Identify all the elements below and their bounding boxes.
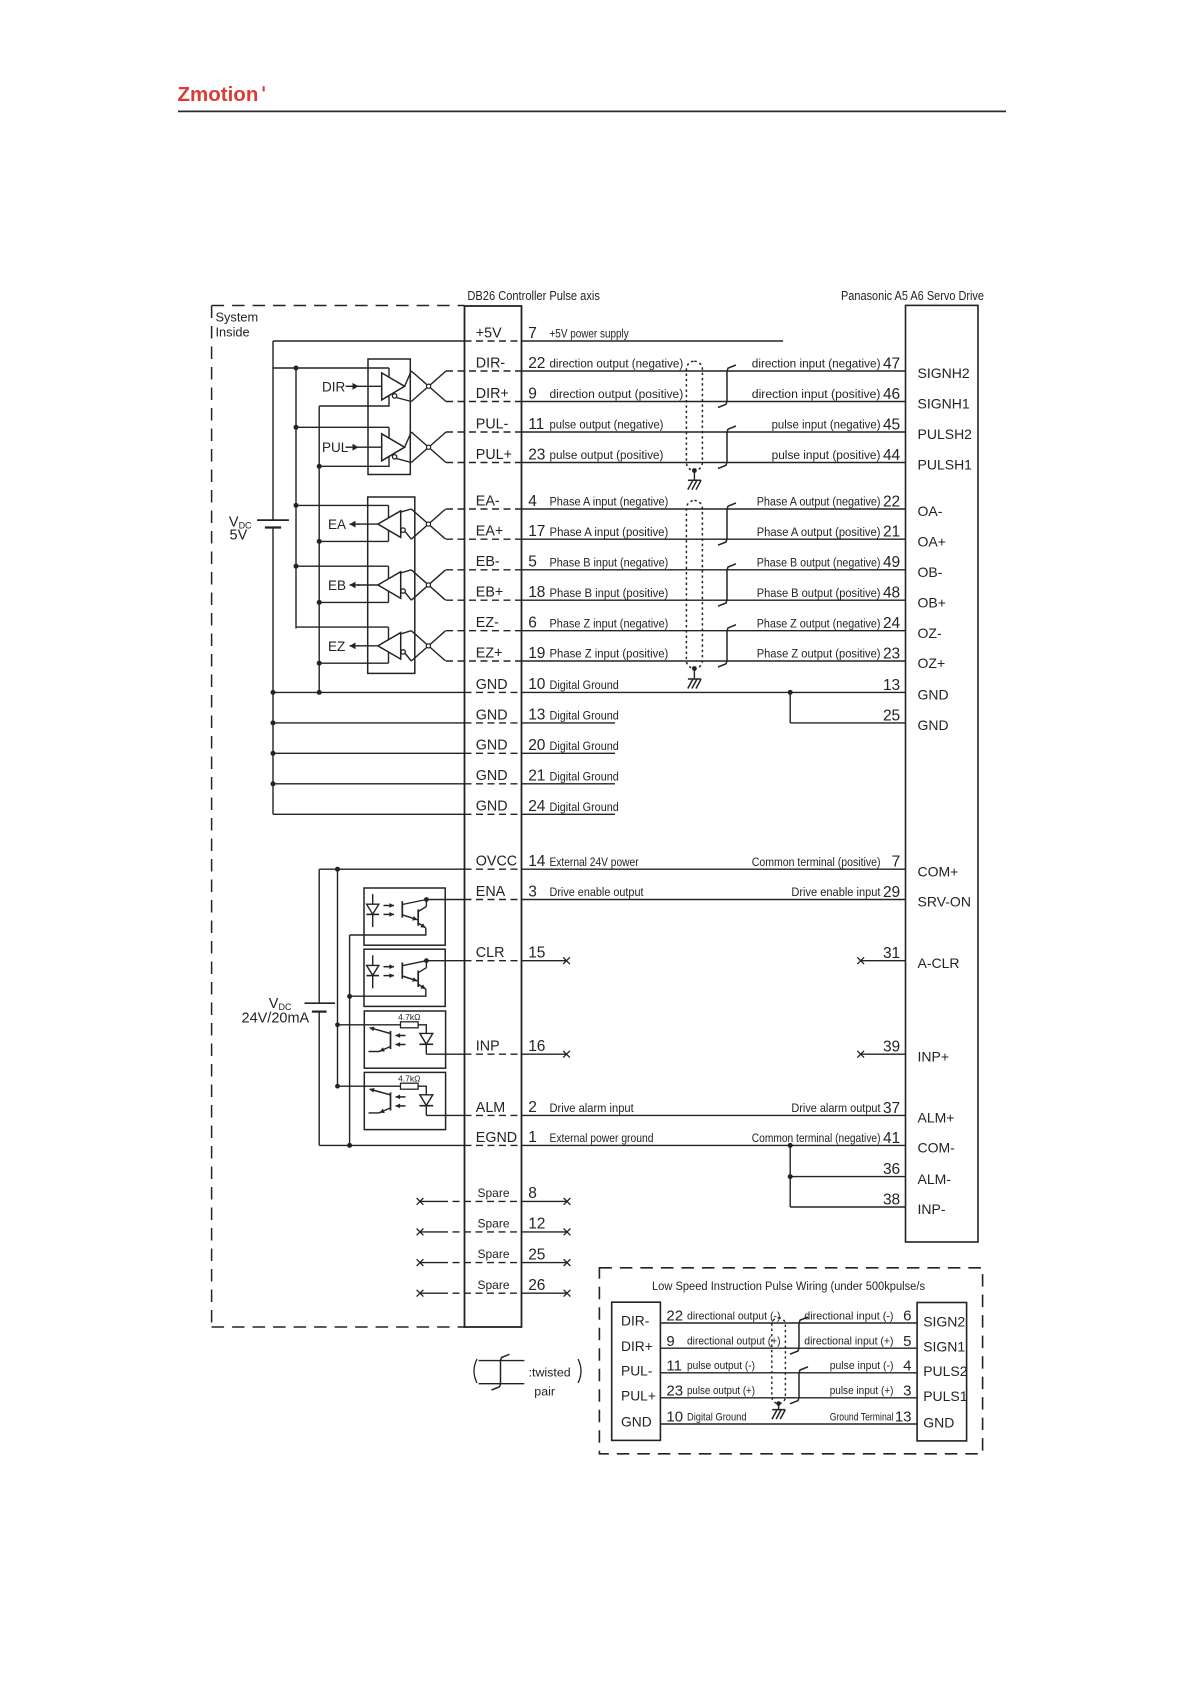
svg-text:5: 5	[903, 1333, 911, 1350]
svg-text:EB+: EB+	[476, 585, 503, 601]
svg-text:directional output (-): directional output (-)	[687, 1310, 781, 1322]
junction	[271, 781, 276, 786]
pin label GND / 10	[476, 676, 619, 693]
svg-text:4: 4	[903, 1357, 911, 1374]
svg-text:44: 44	[883, 447, 901, 464]
pin label CLR / 15	[476, 945, 546, 962]
svg-text:19: 19	[528, 645, 545, 662]
svg-text:Phase B output (negative): Phase B output (negative)	[757, 555, 881, 569]
svg-text:11: 11	[528, 416, 544, 433]
svg-text:18: 18	[528, 584, 545, 601]
svg-text:Drive alarm output: Drive alarm output	[791, 1101, 881, 1115]
svg-text:Phase A input (negative): Phase A input (negative)	[550, 495, 669, 509]
crossover X (DIR pair)	[396, 371, 446, 402]
svg-text:GND: GND	[621, 1415, 652, 1430]
light arrows	[384, 966, 395, 968]
servo pin 47 SIGNH2	[752, 355, 970, 381]
LS shield mark (PUL pair)	[790, 1367, 808, 1404]
servo pin 36 ALM-	[883, 1161, 951, 1187]
svg-text:Panasonic A5 A6 Servo Drive: Panasonic A5 A6 Servo Drive	[841, 288, 984, 303]
junction	[294, 366, 299, 371]
svg-text:PUL-: PUL-	[621, 1363, 652, 1378]
pin label EZ+ / 19	[476, 645, 669, 662]
wire COM- branch rail	[789, 1145, 791, 1207]
svg-text:9: 9	[528, 385, 537, 402]
phototransistor INP	[390, 1031, 392, 1049]
pin label DIR+ / 9	[476, 385, 683, 402]
svg-text::twisted: :twisted	[529, 1366, 571, 1380]
svg-text:4.7kΩ: 4.7kΩ	[398, 1012, 420, 1022]
junction	[317, 464, 322, 469]
pin label GND / 24	[476, 798, 619, 815]
wire GND pin21	[273, 783, 465, 785]
junction	[335, 1084, 340, 1089]
optocoupler INP	[364, 1011, 445, 1068]
pin label DIR- / 22	[476, 355, 683, 372]
svg-text:EA: EA	[328, 517, 346, 532]
svg-text:EZ: EZ	[328, 639, 345, 654]
svg-text:22: 22	[528, 355, 545, 372]
svg-text:Ground Terminal: Ground Terminal	[830, 1411, 894, 1423]
servo pin 45 PULSH2	[772, 416, 973, 442]
servo pin 24 OZ-	[757, 615, 942, 641]
LS wire PUL- to PULS2	[660, 1372, 917, 1374]
svg-text:Spare: Spare	[478, 1247, 510, 1261]
svg-text:24: 24	[528, 798, 546, 815]
servo pin 44 PULSH1	[772, 447, 973, 473]
svg-text:Digital Ground: Digital Ground	[550, 800, 619, 814]
shield mark (DIR pair)	[718, 365, 736, 408]
svg-text:39: 39	[883, 1039, 900, 1056]
svg-text:COM+: COM+	[918, 863, 959, 879]
svg-text:EA-: EA-	[476, 493, 500, 509]
svg-text:External power ground: External power ground	[550, 1131, 654, 1145]
svg-text:12: 12	[528, 1216, 545, 1233]
line driver U1 outline	[368, 359, 410, 475]
LS wire PUL+ to PULS1	[660, 1397, 917, 1399]
rail F (emitter return rail)	[349, 935, 351, 1145]
svg-text:Spare: Spare	[478, 1186, 510, 1200]
wire EGND pin1 (to servo COM-)	[319, 1144, 464, 1146]
pin label Spare / 8	[478, 1185, 537, 1202]
junction	[271, 720, 276, 725]
svg-text:pulse output (-): pulse output (-)	[687, 1360, 755, 1372]
pin label GND / 13	[476, 707, 619, 724]
svg-text:DIR+: DIR+	[621, 1339, 653, 1354]
svg-text:ENA: ENA	[476, 884, 506, 900]
header rule	[178, 110, 1006, 112]
Zmotion logo	[178, 83, 265, 106]
receiver cell rails (EZ)	[296, 626, 389, 628]
connector J1 DB26 strip	[465, 306, 522, 1327]
pin label EA- / 4	[476, 493, 669, 510]
junction	[317, 690, 322, 695]
LED ALM	[418, 1086, 426, 1095]
LS shield drain junction	[776, 1401, 781, 1406]
servo pin 13 GND	[883, 677, 949, 703]
shield mark (EB pair)	[718, 564, 736, 606]
svg-text:21: 21	[883, 524, 900, 541]
wire ENA output	[426, 899, 464, 901]
legend: twisted pair symbol	[474, 1354, 581, 1398]
svg-text:+5V power supply: +5V power supply	[550, 327, 630, 341]
pin label EB- / 5	[476, 554, 669, 571]
svg-text:3: 3	[903, 1382, 911, 1399]
svg-text:EA+: EA+	[476, 524, 503, 540]
svg-text:OZ-: OZ-	[918, 625, 942, 641]
svg-text:GND: GND	[476, 707, 508, 723]
svg-text:Spare: Spare	[478, 1278, 510, 1292]
junction	[347, 994, 352, 999]
svg-text:PULSH1: PULSH1	[918, 457, 973, 473]
svg-text:direction input (negative): direction input (negative)	[752, 357, 881, 371]
svg-text:PUL: PUL	[322, 440, 349, 455]
svg-text:OA+: OA+	[918, 533, 946, 549]
LS shield mark (DIR pair)	[790, 1317, 808, 1354]
svg-text:ALM+: ALM+	[918, 1110, 955, 1126]
svg-text:pair: pair	[534, 1384, 555, 1398]
svg-text:SIGNH2: SIGNH2	[918, 365, 970, 381]
svg-text:5V: 5V	[230, 528, 248, 544]
pin label EZ- / 6	[476, 615, 669, 632]
wire CLR output	[426, 960, 464, 962]
wire PUL- to servo	[446, 431, 522, 433]
driver cell top rail (PUL)	[296, 426, 389, 428]
svg-text:DIR-: DIR-	[621, 1314, 649, 1329]
svg-text:EZ+: EZ+	[476, 645, 503, 661]
svg-text:pulse input (-): pulse input (-)	[830, 1360, 894, 1372]
svg-text:Zmotion: Zmotion	[178, 83, 259, 106]
resistor R ALM 4.7k	[338, 1085, 401, 1087]
svg-text:GND: GND	[918, 687, 949, 703]
junction	[271, 751, 276, 756]
output junction	[424, 897, 429, 902]
connector strip (controller, low speed)	[612, 1302, 661, 1440]
wire OVCC pin14 (to servo COM+)	[319, 868, 464, 870]
svg-text:direction input (positive): direction input (positive)	[752, 387, 881, 401]
svg-text:Drive alarm input: Drive alarm input	[550, 1101, 635, 1115]
optocoupler CLR	[364, 949, 445, 1006]
LS wire DIR- to SIGN2	[660, 1322, 917, 1324]
svg-text:22: 22	[883, 493, 900, 510]
svg-text:9: 9	[666, 1333, 674, 1350]
buffer amp A1 (DIR)	[382, 373, 405, 400]
wire EZ- to servo	[446, 630, 522, 632]
svg-text:directional input (-): directional input (-)	[804, 1310, 893, 1322]
LED ENA	[372, 894, 374, 904]
crossover X (PUL pair)	[396, 432, 446, 463]
emitter return wire	[350, 928, 426, 935]
pin label EA+ / 17	[476, 523, 669, 540]
servo pin 29 SRV-ON	[791, 884, 971, 910]
svg-text:SIGNH1: SIGNH1	[918, 396, 970, 412]
pin label INP / 16	[476, 1038, 546, 1055]
wire INP- pin38	[790, 1206, 905, 1208]
receiver cell rails (EB)	[296, 565, 389, 567]
input arrow	[346, 385, 359, 387]
svg-text:PULS1: PULS1	[923, 1388, 968, 1404]
servo pin 39 INP+	[883, 1039, 949, 1065]
svg-text:GND: GND	[923, 1414, 954, 1430]
output junction	[424, 958, 429, 963]
servo pin 48 OB+	[757, 585, 946, 611]
svg-text:PUL-: PUL-	[476, 416, 509, 432]
svg-text:5: 5	[528, 554, 537, 571]
svg-text:41: 41	[883, 1130, 900, 1147]
svg-text:Phase B input (positive): Phase B input (positive)	[550, 586, 669, 600]
crossover X (EA pair)	[401, 509, 446, 539]
svg-text:SIGN1: SIGN1	[923, 1339, 965, 1355]
svg-text:36: 36	[883, 1161, 900, 1178]
svg-text:EB: EB	[328, 578, 346, 593]
earth ground (cable 2 shield)	[688, 679, 701, 689]
crossover X (EB pair)	[401, 570, 446, 600]
LED INP	[418, 1025, 426, 1034]
svg-text:Digital Ground: Digital Ground	[550, 709, 619, 723]
phototransistor CLR	[401, 962, 403, 978]
shield drain junction	[692, 468, 697, 473]
svg-text:DIR: DIR	[322, 379, 346, 394]
junction	[788, 1174, 793, 1179]
svg-text:COM-: COM-	[918, 1140, 956, 1156]
svg-text:Common terminal (positive): Common terminal (positive)	[752, 855, 881, 869]
connector strip (servo, low speed)	[917, 1303, 967, 1441]
optocoupler ALM	[364, 1072, 445, 1129]
phototransistor ALM	[390, 1092, 392, 1110]
receiver amp (EZ)	[378, 633, 401, 660]
wire GND pin10 (to servo GND 13)	[273, 691, 465, 693]
svg-text:25: 25	[883, 707, 900, 724]
svg-text:GND: GND	[476, 768, 508, 784]
pin label ENA / 3	[476, 883, 644, 900]
svg-text:Low Speed Instruction Pulse Wi: Low Speed Instruction Pulse Wiring (unde…	[652, 1279, 925, 1293]
svg-text:3: 3	[528, 883, 537, 900]
connector X4 Panasonic servo drive	[906, 305, 979, 1242]
svg-text:13: 13	[895, 1409, 912, 1426]
wire EB- to servo	[446, 569, 522, 571]
wire INP output	[426, 1053, 464, 1055]
svg-text:17: 17	[528, 523, 545, 540]
junction	[788, 1143, 793, 1148]
svg-text:PULSH2: PULSH2	[918, 426, 973, 442]
svg-text:pulse input (negative): pulse input (negative)	[772, 418, 881, 432]
svg-text:46: 46	[883, 386, 900, 403]
junction	[347, 1143, 352, 1148]
optocoupler ENA	[364, 888, 445, 945]
rail E (anode feed rail)	[337, 869, 339, 1086]
svg-text:29: 29	[883, 884, 900, 901]
wire Spare pin8	[417, 1198, 424, 1205]
svg-text:7: 7	[528, 325, 537, 342]
emitter return wire	[350, 989, 426, 996]
net +5V wire (rail corner to pin 7)	[273, 340, 465, 342]
resistor R INP 4.7k	[338, 1024, 401, 1026]
svg-text:Phase Z output (positive): Phase Z output (positive)	[757, 647, 881, 661]
earth ground (cable 1 shield)	[688, 480, 701, 490]
svg-text:24V/20mA: 24V/20mA	[242, 1010, 310, 1026]
phototransistor ENA	[401, 901, 403, 917]
svg-text:23: 23	[528, 446, 545, 463]
svg-text:External 24V power: External 24V power	[550, 855, 639, 869]
wire EB+ to servo	[446, 599, 522, 601]
wire EZ+ to servo	[446, 660, 522, 662]
wire Spare pin26	[417, 1290, 424, 1297]
junction	[294, 564, 299, 569]
wire EA- to servo	[446, 508, 522, 510]
rail C (driver/receiver return rail)	[318, 406, 320, 692]
svg-text:+5V: +5V	[476, 325, 502, 341]
svg-text:Phase B output (positive): Phase B output (positive)	[757, 586, 881, 600]
svg-text:directional output (+): directional output (+)	[687, 1336, 781, 1348]
svg-text:25: 25	[528, 1246, 545, 1263]
buffer amp A2 (PUL)	[382, 434, 405, 461]
pin label PUL- / 11	[476, 416, 664, 433]
svg-text:23: 23	[883, 645, 900, 662]
servo pin 31 A-CLR	[883, 945, 960, 971]
svg-text:Spare: Spare	[478, 1217, 510, 1231]
svg-text:EB-: EB-	[476, 554, 500, 570]
svg-text:Phase B input (negative): Phase B input (negative)	[550, 555, 669, 569]
svg-text:CLR: CLR	[476, 945, 505, 961]
pin label GND / 20	[476, 737, 619, 754]
svg-text:37: 37	[883, 1100, 900, 1117]
servo pin 25 GND	[883, 707, 949, 733]
svg-text:6: 6	[528, 615, 537, 632]
svg-text:14: 14	[528, 853, 546, 870]
junction	[317, 539, 322, 544]
pin label Spare / 12	[478, 1216, 546, 1233]
wire DIR+ to servo	[446, 401, 522, 403]
svg-text:20: 20	[528, 737, 546, 754]
junction	[317, 661, 322, 666]
light arrows	[384, 905, 395, 907]
svg-text:48: 48	[883, 585, 900, 602]
svg-text:EZ-: EZ-	[476, 615, 499, 631]
shield mark (PUL pair)	[718, 426, 736, 469]
light arrows	[396, 1035, 406, 1037]
svg-text:DIR+: DIR+	[476, 386, 509, 402]
servo pin 46 SIGNH1	[752, 386, 970, 412]
junction	[317, 600, 322, 605]
svg-text:26: 26	[528, 1277, 545, 1294]
power rail A (5V rail from +5V down through battery to GND rows)	[272, 341, 274, 520]
no-connect X (INP)	[563, 1051, 570, 1058]
svg-text:OB-: OB-	[918, 564, 943, 580]
svg-text:Inside: Inside	[216, 325, 250, 340]
svg-text:31: 31	[883, 945, 900, 962]
svg-text:Phase A input (positive): Phase A input (positive)	[550, 525, 669, 539]
svg-text:15: 15	[528, 945, 545, 962]
rail D (24V rail)	[318, 869, 320, 1003]
wire ALM output	[426, 1114, 464, 1116]
servo pin 21 OA+	[757, 524, 946, 550]
wire ALM- pin36	[790, 1176, 905, 1178]
svg-text:1: 1	[528, 1129, 537, 1146]
svg-text:ALM: ALM	[476, 1100, 505, 1116]
inverting output bubble	[392, 394, 396, 398]
pin label +5V / 7	[476, 325, 630, 342]
servo pin 23 OZ+	[757, 645, 945, 671]
wire Spare pin12	[417, 1229, 424, 1236]
pin label GND / 21	[476, 768, 619, 785]
junction	[788, 690, 793, 695]
pin label ALM / 2	[476, 1099, 634, 1116]
svg-text:4.7kΩ: 4.7kΩ	[398, 1074, 420, 1084]
receiver cell rails (EA)	[296, 504, 389, 506]
junction	[271, 690, 276, 695]
svg-text:EGND: EGND	[476, 1130, 517, 1146]
rail B (x=296)	[295, 368, 297, 629]
svg-text:7: 7	[892, 854, 901, 871]
svg-text:ALM-: ALM-	[918, 1171, 952, 1187]
shield drain junction	[692, 666, 697, 671]
svg-text:GND: GND	[918, 717, 949, 733]
svg-text:direction output (negative): direction output (negative)	[550, 357, 684, 371]
battery B1 VDC 5V	[257, 520, 289, 527]
svg-text:pulse output (negative): pulse output (negative)	[550, 418, 664, 432]
svg-text:GND: GND	[476, 799, 508, 815]
earth ground (LS cable shield)	[772, 1410, 785, 1420]
servo pin 37 ALM+	[791, 1100, 954, 1126]
svg-text:22: 22	[666, 1308, 683, 1325]
svg-text:PULS2: PULS2	[923, 1363, 968, 1379]
svg-text:DB26 Controller Pulse axis: DB26 Controller Pulse axis	[467, 288, 600, 303]
svg-text:45: 45	[883, 416, 900, 433]
wire GND pin20	[273, 752, 465, 754]
servo pin 22 OA-	[757, 493, 943, 519]
LS wire GND to GND	[660, 1423, 917, 1425]
driver cell top rail (DIR)	[273, 367, 389, 369]
svg-text:Phase A output (negative): Phase A output (negative)	[757, 495, 881, 509]
svg-text:directional input (+): directional input (+)	[804, 1336, 893, 1348]
svg-text:Phase Z output (negative): Phase Z output (negative)	[757, 616, 881, 630]
driver cell PUL right/bottom edges	[319, 427, 389, 466]
svg-text:8: 8	[528, 1185, 537, 1202]
svg-text:direction output (positive): direction output (positive)	[550, 387, 684, 401]
junction	[294, 425, 299, 430]
servo pin 7 COM+	[752, 854, 959, 880]
svg-text:23: 23	[666, 1382, 683, 1399]
svg-text:47: 47	[883, 355, 900, 372]
svg-text:OZ+: OZ+	[918, 655, 946, 671]
svg-text:pulse output (+): pulse output (+)	[687, 1385, 755, 1397]
wire A-CLR pin31	[857, 957, 864, 964]
svg-text:SIGN2: SIGN2	[923, 1313, 965, 1329]
shield mark (EZ pair)	[718, 625, 736, 667]
Low Speed Instruction Pulse Wiring box	[599, 1268, 982, 1454]
pin label Spare / 26	[478, 1277, 546, 1294]
wire Spare pin25	[417, 1259, 424, 1266]
wire PUL+ to servo	[446, 462, 522, 464]
svg-text:16: 16	[528, 1038, 545, 1055]
svg-text:Drive enable output: Drive enable output	[550, 885, 644, 899]
System Inside dashed boundary	[212, 306, 465, 1328]
shield mark (EA pair)	[718, 503, 736, 545]
svg-text:Drive enable input: Drive enable input	[791, 885, 881, 899]
svg-text:pulse input (positive): pulse input (positive)	[772, 448, 881, 462]
junction	[294, 503, 299, 508]
svg-text:Common terminal (negative): Common terminal (negative)	[752, 1131, 881, 1145]
servo pin 38 INP-	[883, 1191, 946, 1217]
svg-text:INP-: INP-	[918, 1201, 946, 1217]
svg-text:2: 2	[528, 1099, 537, 1116]
servo pin 41 COM-	[752, 1130, 955, 1156]
driver cell DIR right/bottom edges	[319, 368, 389, 406]
shielded twisted cable (DIR/PUL group)	[686, 361, 702, 470]
svg-text:INP+: INP+	[918, 1048, 950, 1064]
wire GND pin13	[273, 722, 465, 724]
LED CLR	[372, 955, 374, 965]
